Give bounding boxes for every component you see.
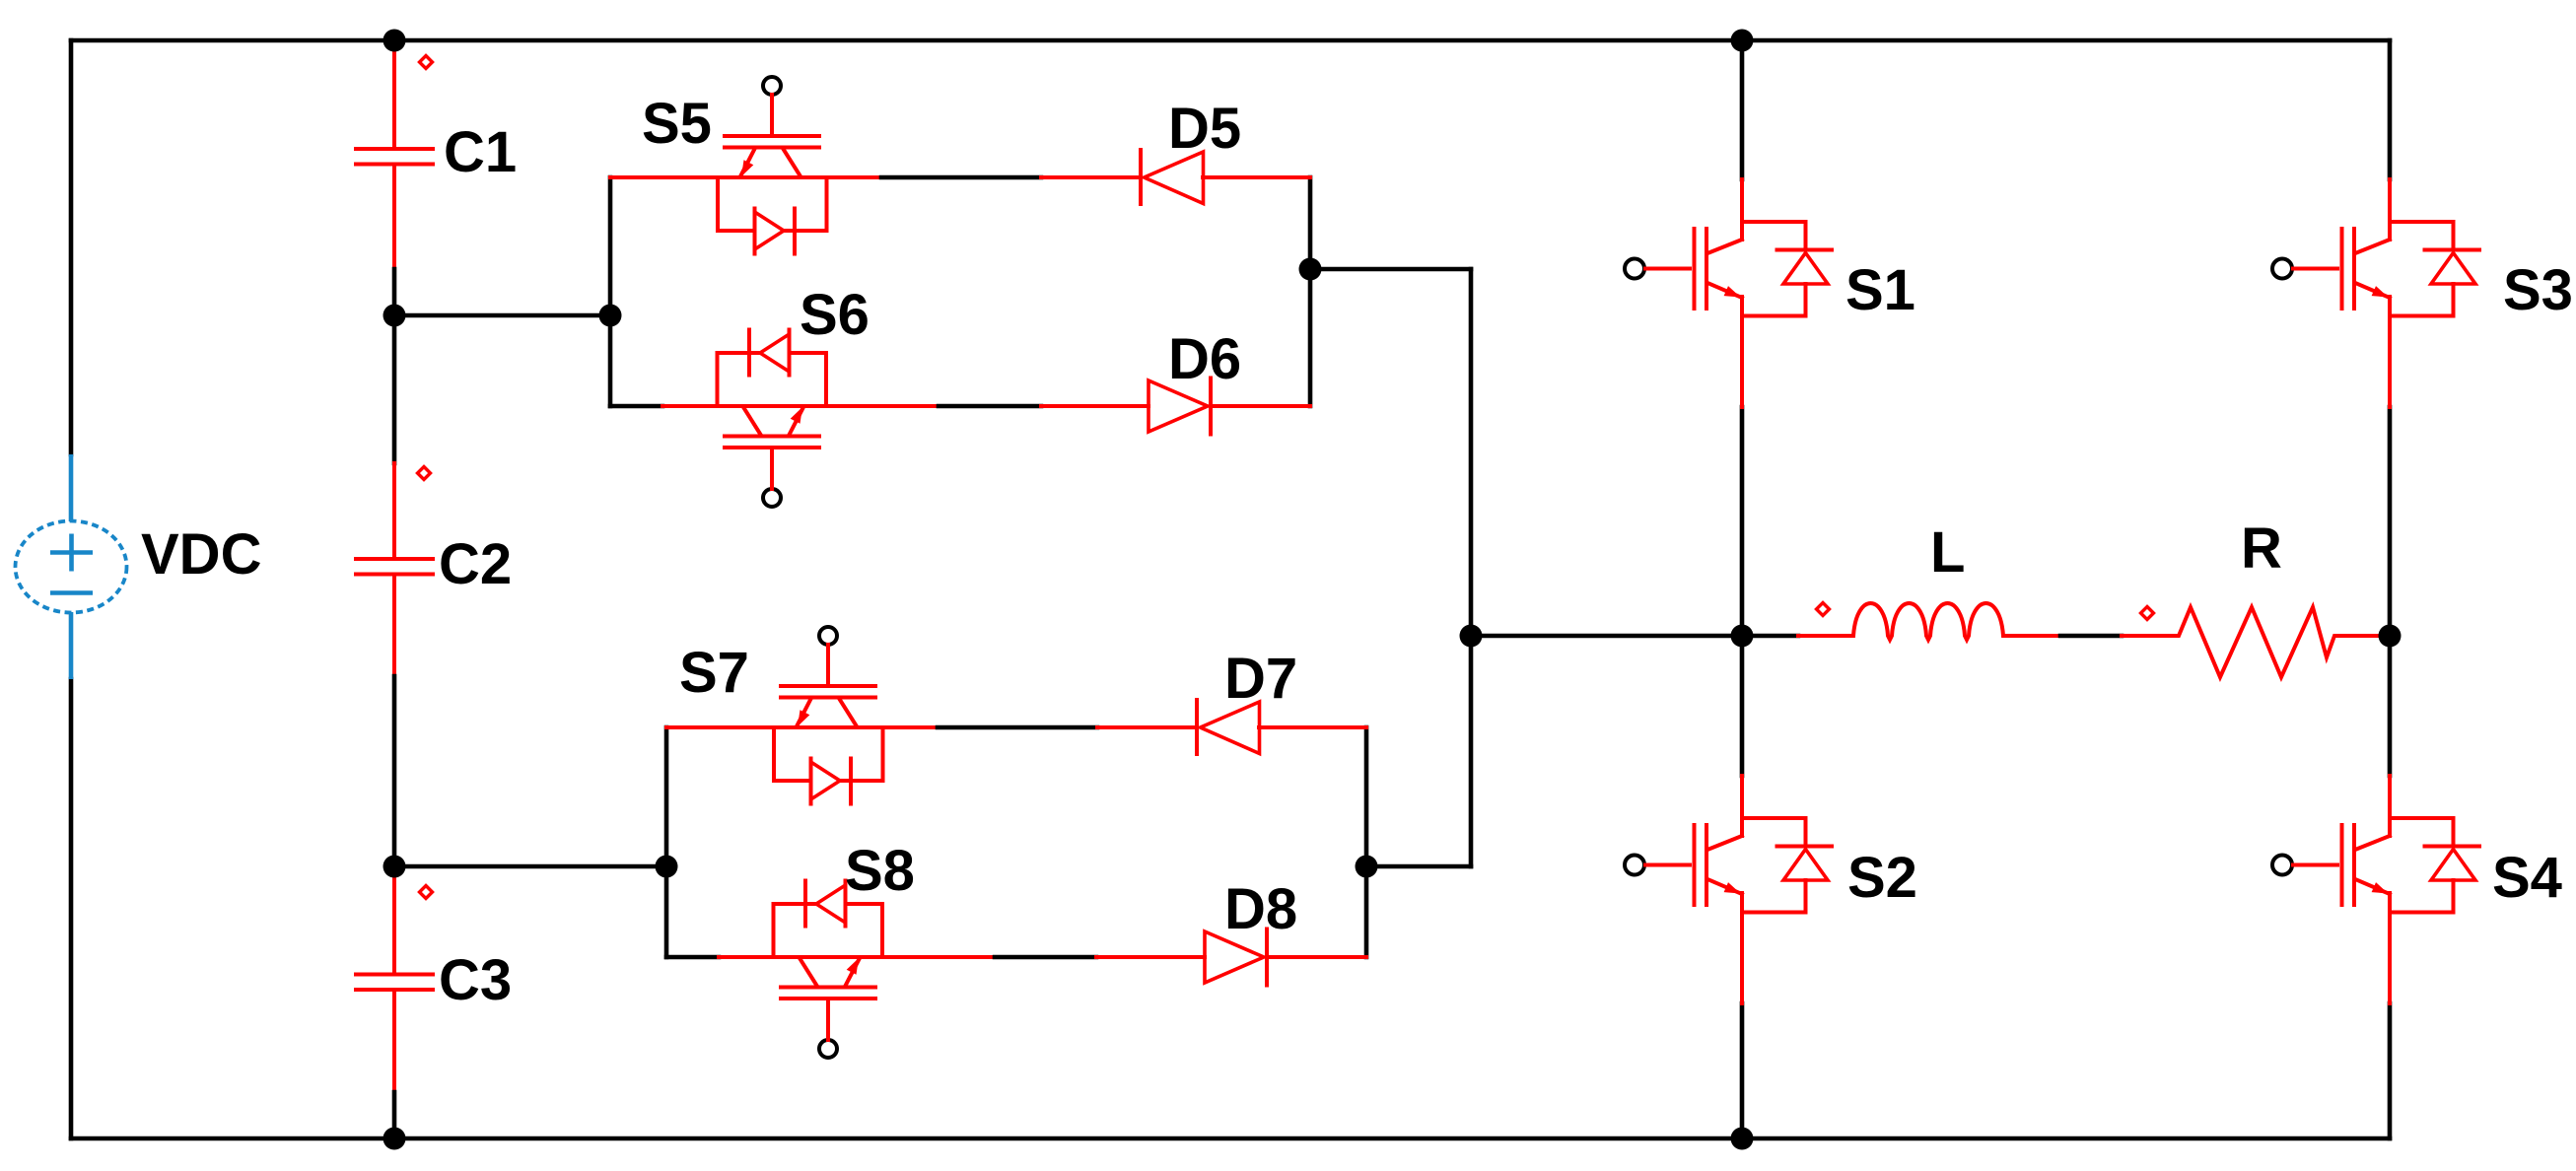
wire D6 rail red right [1211,404,1310,408]
wire S7 rail black middle [938,725,1097,730]
node bottom bus / bridge left leg [1731,1128,1754,1150]
svg-text:S4: S4 [2492,846,2562,910]
marker above C1 [420,56,433,69]
wire C3 bottom red [392,992,396,1092]
wire output line black left [1471,634,1798,639]
capacitor C2 [356,559,433,575]
svg-text:S1: S1 [1845,258,1915,322]
wire node to C3 red [392,866,396,973]
capacitor C1 [356,149,433,165]
resistor R [2122,607,2390,677]
wire D5 rail red right [1203,175,1310,179]
diode D6 [1149,379,1211,435]
svg-text:L: L [1930,520,1965,585]
node bottom bus / capacitor leg [383,1128,406,1150]
wire bridge right leg bottom black [2388,1003,2393,1138]
marker before L [1817,603,1830,616]
wire D8 rail red right [1267,955,1366,959]
IGBT S8 [774,881,883,1059]
node C2-C3 junction [383,856,406,878]
wire S7/S8 block right vertical [1364,727,1369,957]
inductor L [1798,603,2060,640]
node S5/S6 input [599,305,622,327]
svg-text:S6: S6 [800,283,870,347]
marker above C2 [418,467,431,480]
wire S6 rail black left [610,404,662,409]
wire bridge left leg top black [1740,40,1745,179]
node top bus / capacitor leg [383,30,406,52]
svg-text:C2: C2 [439,532,512,596]
node output line / bridge right leg [2379,625,2402,648]
wire S5/S6 block left vertical [608,177,613,406]
wire S5 rail red left [610,175,881,179]
svg-text:S3: S3 [2503,258,2573,322]
diode D7 [1197,700,1260,754]
diode D8 [1205,930,1267,986]
wire bridge left leg bottom black [1740,1003,1745,1138]
voltage source VDC [16,454,127,679]
svg-text:S5: S5 [642,92,712,156]
node S5/S6 output [1299,258,1322,281]
capacitor C3 [356,975,433,991]
wire left rail lower [69,679,74,1138]
wire bridge right leg top black [2388,40,2393,179]
node S7/S8 input [656,856,678,878]
node output line / bridge left leg [1731,625,1754,648]
wire S5 rail black middle [881,175,1041,180]
wire S7 rail red left [666,725,938,729]
svg-text:S2: S2 [1847,846,1917,910]
wire D7 rail red right [1259,725,1366,729]
svg-text:D5: D5 [1168,97,1241,161]
svg-text:S8: S8 [845,839,915,903]
svg-text:D8: D8 [1224,877,1297,941]
node top bus / bridge left leg [1731,30,1754,52]
svg-text:D7: D7 [1224,647,1297,711]
svg-text:C3: C3 [439,948,512,1012]
wire D5 rail red left [1041,175,1141,179]
wire S5/S6 output [1310,267,1471,272]
wire D6 rail red left [1041,404,1149,408]
wire D7 rail red left [1097,725,1197,729]
wire output line black middle [2060,634,2122,639]
wire middle vertical [1469,269,1474,866]
wire S8 rail black middle [995,955,1096,960]
wire C3 to bottom bus black [392,1092,397,1138]
wire C2 top red [392,463,396,557]
wire bottom bus [71,1137,2390,1141]
svg-text:S7: S7 [679,641,749,705]
wire S7/S8 output [1366,864,1471,869]
wire C2 to node black [392,676,397,866]
svg-text:C1: C1 [444,120,517,184]
wire S6 rail red [662,404,939,408]
IGBT S4 [2272,776,2479,1003]
wire C2 bottom red [392,577,396,677]
svg-text:VDC: VDC [141,522,261,586]
wire node to C2 black [392,315,397,463]
node C1-C2 junction [383,305,406,327]
IGBT S6 [718,330,827,508]
IGBT S5 [718,77,827,254]
marker above C3 [420,886,433,899]
node output line / middle vertical [1460,625,1483,648]
wire bridge left leg middle black [1740,407,1745,776]
wire S6 rail black middle [939,404,1041,409]
wire S7/S8 block left vertical [664,727,669,957]
svg-text:D6: D6 [1168,327,1241,391]
IGBT S2 [1625,776,1832,1003]
svg-text:R: R [2241,517,2282,581]
wire C1 bottom red [392,167,396,270]
wire S8 rail red [719,955,995,959]
marker before R [2141,607,2154,620]
node S7/S8 output [1356,856,1378,878]
wire bridge right leg middle black [2388,407,2393,776]
wire capacitor leg red C1 top [392,42,396,147]
IGBT S7 [774,627,883,804]
IGBT S1 [1625,179,1832,407]
wire node1 to S5/S6 block [394,313,610,318]
IGBT S3 [2272,179,2479,407]
wire S8 rail black left [666,955,719,960]
wire S5/S6 block right vertical [1308,177,1313,406]
wire C1 to node black [392,269,397,315]
diode D5 [1141,150,1204,204]
wire D8 rail red left [1096,955,1205,959]
wire node2 to S7/S8 block [394,864,666,869]
wire top bus [71,38,2390,43]
wire left rail upper [69,40,74,454]
